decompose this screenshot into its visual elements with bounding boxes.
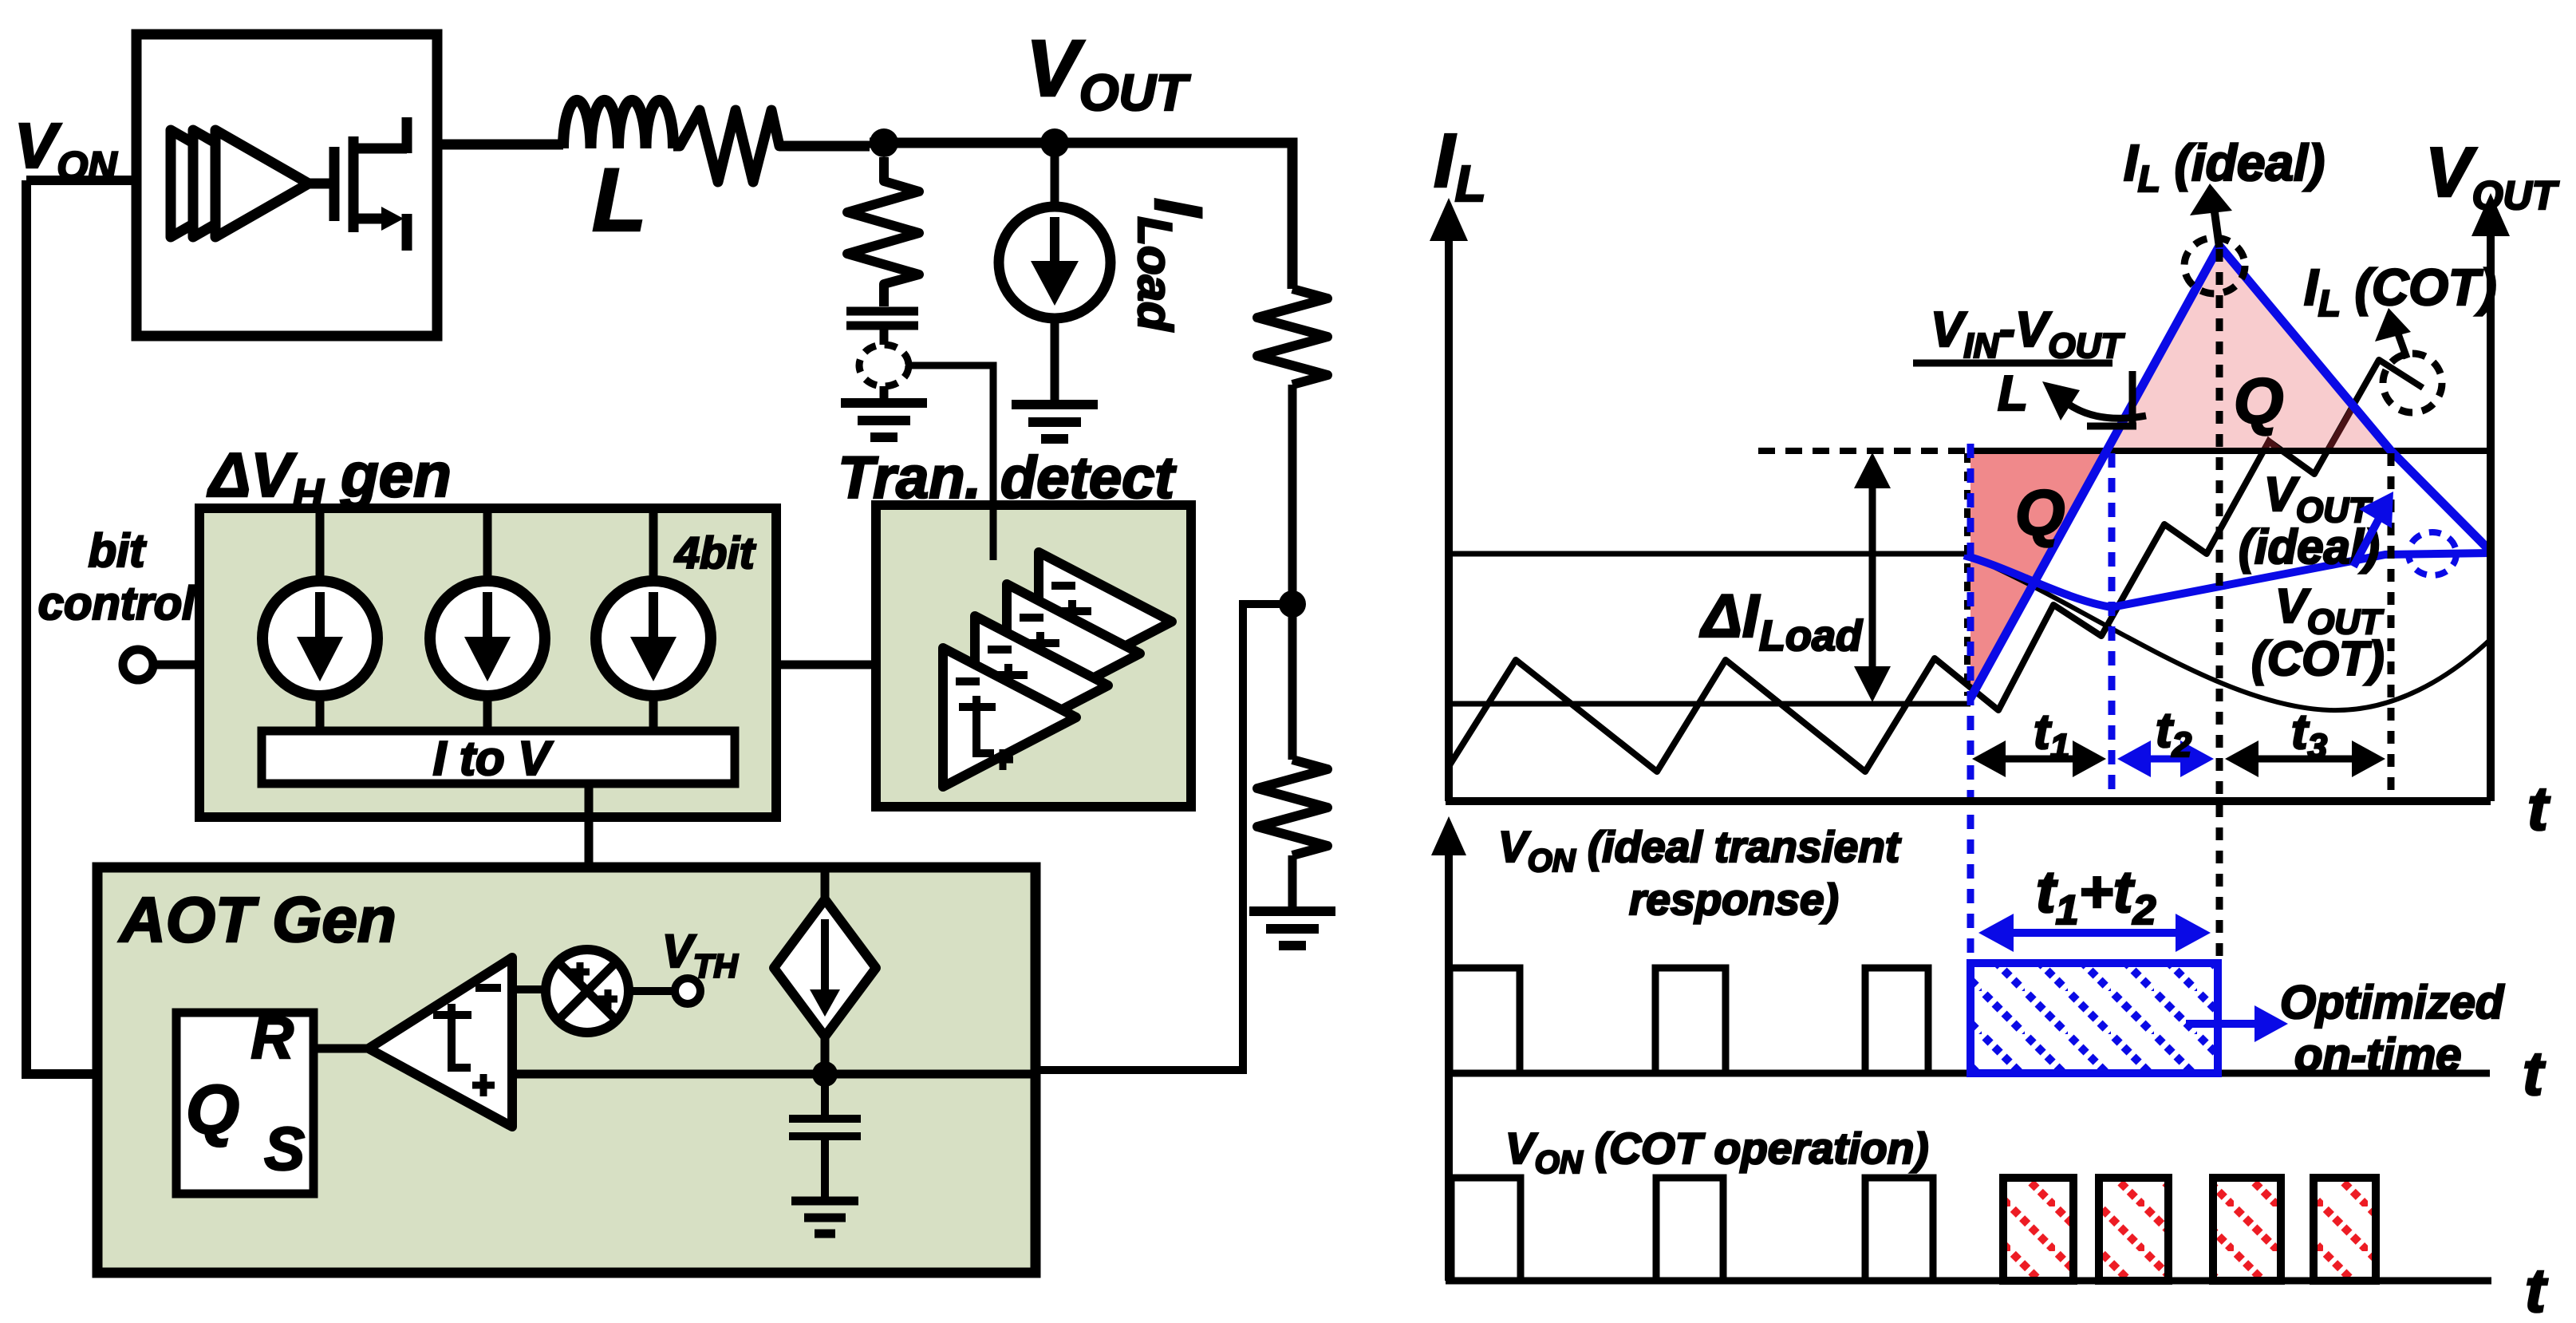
wire current source to ItoV: [316, 696, 325, 731]
wire VON feedback down to AOT: [26, 180, 176, 1074]
block Tran detect: [876, 505, 1191, 807]
wire R1 to node FB: [1288, 385, 1297, 604]
power stage box U1: [136, 34, 437, 336]
node A (ESR branch): [870, 128, 898, 157]
wire R2 to ground: [1288, 855, 1297, 907]
pulse VON COT 2: [1656, 1178, 1723, 1281]
pulse VON COT 4 hatched: [2003, 1178, 2073, 1281]
flip-flop FF1: [176, 1013, 314, 1194]
baseline VON ideal: [1446, 1070, 2490, 1077]
ground (ILoad): [1012, 405, 1098, 439]
svg-text:Optimized: Optimized: [2280, 977, 2505, 1029]
axis IL: [1445, 235, 1453, 801]
svg-text:Q: Q: [186, 1072, 239, 1148]
wire to current source: [316, 508, 325, 583]
node VOUT: [1040, 128, 1069, 157]
slope elbow: [2087, 371, 2136, 426]
block AOT Gen: [97, 867, 1036, 1273]
dashed circle VOUT ideal: [2408, 532, 2456, 575]
axis t top: [1446, 797, 2491, 805]
pulse VON ideal 3: [1865, 968, 1928, 1073]
dashed line IL high level ext: [1758, 448, 1970, 454]
current source I611: [430, 581, 545, 696]
svg-text:control: control: [38, 578, 196, 630]
comparator CMP3: [975, 616, 1108, 755]
comparator CMP5: [369, 958, 512, 1127]
wire VOUT to divider: [1055, 143, 1292, 289]
baseline VON COT: [1446, 1278, 2491, 1285]
arrow t3: [2244, 756, 2366, 763]
wire power stage to inductor: [437, 140, 563, 150]
node timing cap: [812, 1061, 838, 1087]
block dVH gen: [199, 508, 776, 817]
dashed vertical t1 blue: [2109, 453, 2116, 798]
wire dVH to Tran detect: [776, 661, 876, 669]
terminal VTH: [675, 978, 700, 1004]
buffer chain B1: [171, 130, 309, 237]
svg-text:(COT): (COT): [2251, 632, 2385, 685]
current source I401: [262, 581, 377, 696]
svg-text:4bit: 4bit: [674, 527, 756, 578]
dashed circle IL COT: [2383, 353, 2442, 413]
wire FB to R2: [1288, 604, 1297, 760]
curve VOUT ideal: [1964, 553, 2491, 607]
line VOUT initial level: [1449, 551, 1964, 557]
arrow t1: [1991, 756, 2087, 763]
svg-text:I to V: I to V: [433, 732, 554, 785]
svg-text:on-time: on-time: [2294, 1029, 2461, 1081]
maroon overlap segments: [2264, 441, 2280, 451]
wire to VOUT node: [870, 138, 1055, 148]
wire AOT top to diamond: [821, 870, 830, 902]
node sense (dashed circle): [859, 345, 909, 386]
ground (timing cap): [791, 1201, 858, 1234]
arrow IL ideal: [2215, 212, 2219, 247]
pulse VON COT 6 hatched: [2213, 1178, 2281, 1281]
wire to current source: [483, 508, 492, 583]
wire sense into block: [990, 505, 997, 560]
dashed vertical t0 blue: [1967, 444, 1974, 963]
arrow dILoad: [1869, 479, 1876, 676]
line IL initial level: [1449, 701, 1970, 707]
svg-text:bit: bit: [89, 525, 148, 577]
svg-text:S: S: [264, 1116, 305, 1183]
pulse VON ideal 1: [1450, 968, 1520, 1073]
resistor R1 (divider top): [1257, 289, 1327, 385]
curve IL COT sawtooth: [1450, 360, 2423, 772]
axis VON ideal: [1445, 846, 1453, 1073]
arrow VOUT ideal: [2353, 517, 2380, 567]
node FB: [1279, 590, 1306, 618]
comparator CMP4: [943, 648, 1076, 787]
svg-text:Q: Q: [2015, 477, 2065, 548]
pulse VON COT 5 hatched: [2099, 1178, 2168, 1281]
block I to V: [262, 731, 735, 784]
svg-text:response): response): [1629, 875, 1839, 924]
comparator CMP1: [1039, 552, 1172, 691]
svg-text:R: R: [251, 1005, 294, 1071]
svg-text:L: L: [1998, 366, 2028, 421]
arrow t1+t2: [1998, 929, 2191, 937]
svg-text:ΔVH gen: ΔVH gen: [207, 440, 452, 519]
curve IL ideal: [1970, 246, 2491, 698]
pulse optimized on-time: [1970, 963, 2218, 1073]
ground (divider): [1249, 911, 1335, 946]
transistor M1: [309, 117, 407, 251]
dashed red triangle edge: [1964, 453, 1970, 696]
svg-text:L: L: [592, 150, 646, 250]
wire comparator to R: [314, 1045, 371, 1053]
resistor ESR: [847, 157, 919, 306]
current source ILoad: [999, 207, 1110, 318]
wire node to cap: [821, 1074, 829, 1116]
svg-text:t: t: [2523, 1038, 2546, 1108]
svg-text:AOT Gen: AOT Gen: [118, 884, 396, 955]
svg-text:t: t: [2527, 773, 2550, 843]
fill Q charge pink: [2108, 246, 2391, 451]
dashed vertical peak black: [2216, 249, 2223, 966]
wire ILoad to ground: [1051, 318, 1059, 401]
arrow IL COT: [2396, 327, 2407, 358]
wire comparator minus to multiplier: [512, 985, 547, 993]
fill Q charge red: [1970, 451, 2108, 698]
axis VOUT: [2487, 231, 2495, 801]
pulse VON COT 1: [1451, 1178, 1521, 1281]
wire bit control to block: [153, 661, 199, 669]
pulse VON ideal 2: [1655, 968, 1726, 1073]
multiplier X1: [546, 950, 629, 1033]
wire to current source: [649, 508, 658, 583]
terminal bit control: [123, 650, 153, 680]
dashed vertical t3 black: [2388, 453, 2395, 798]
axis VON COT: [1445, 1073, 1453, 1281]
resistor DCR (series): [673, 110, 870, 182]
ground (ESR cap): [841, 403, 927, 437]
curve VOUT COT: [1964, 554, 2491, 710]
comparator CMP2: [1007, 584, 1140, 723]
line IL high level: [1970, 448, 2491, 454]
pulse VON COT 3: [1865, 1178, 1933, 1281]
current source I819: [596, 581, 711, 696]
svg-text:Q: Q: [2234, 365, 2283, 436]
wire ItoV to multiplier: [585, 784, 594, 951]
arrow t2: [2136, 756, 2195, 763]
wire VON to power stage: [26, 176, 136, 185]
pulse VON COT 7 hatched: [2314, 1178, 2376, 1281]
wire multiplier to VTH: [629, 987, 675, 995]
arrow slope callout: [2068, 404, 2146, 418]
capacitor COUT: [846, 311, 918, 345]
inductor L: [563, 101, 673, 148]
wire VOUT to ILoad: [1051, 143, 1059, 207]
wire sense node to ground: [880, 386, 889, 399]
arrow optimized: [2186, 1020, 2267, 1028]
wire comparator plus to node to box edge: [512, 1070, 1036, 1079]
wire sense to Tran detect: [905, 365, 993, 505]
svg-text:t: t: [2525, 1255, 2548, 1323]
controlled source D1: [774, 899, 876, 1037]
dashed circle IL ideal peak: [2184, 238, 2245, 294]
wire current source to ItoV: [483, 696, 492, 731]
capacitor CT: [789, 1119, 861, 1197]
wire current source to ItoV: [649, 696, 658, 731]
resistor R2 (divider bottom): [1257, 760, 1327, 855]
wire FB feedback to AOT: [1036, 604, 1292, 1070]
wire diamond to node: [821, 1037, 830, 1074]
